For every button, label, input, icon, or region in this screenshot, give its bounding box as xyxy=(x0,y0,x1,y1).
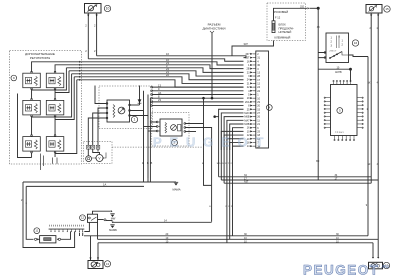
svg-text:2: 2 xyxy=(94,49,96,53)
inline connector X3 xyxy=(96,145,100,149)
IC left pins xyxy=(326,97,331,99)
wire A horizontal to mid ground xyxy=(23,181,144,183)
wire fuse to junction xyxy=(274,8,308,20)
ECU pin 24 xyxy=(250,86,253,88)
svg-text:9: 9 xyxy=(13,76,15,80)
svg-text:B: B xyxy=(147,161,149,165)
svg-text:31: 31 xyxy=(257,57,260,60)
svg-text:20: 20 xyxy=(257,105,260,108)
svg-text:5: 5 xyxy=(248,93,250,96)
svg-text:1А: 1А xyxy=(103,183,106,187)
switch to ground MW xyxy=(93,211,111,214)
left box bottom exit wires xyxy=(41,154,58,171)
svg-text:1: 1 xyxy=(257,94,259,97)
wire A from left down xyxy=(23,182,75,248)
ECU pin 1 xyxy=(250,93,253,95)
svg-text:25: 25 xyxy=(247,108,250,111)
terminal strip bottom left xyxy=(49,228,85,230)
svg-text:МАМБ: МАМБ xyxy=(109,228,117,232)
bus bottom 2 xyxy=(98,238,379,240)
svg-text:МW: МW xyxy=(111,216,116,220)
svg-text:2: 2 xyxy=(342,44,344,47)
ECU connector body xyxy=(256,51,269,148)
junction dot on wire row at x203.5 xyxy=(202,97,205,100)
wire bus line 1 from left to ECU pin xyxy=(97,56,246,58)
relay K1 in left box xyxy=(23,73,41,88)
ignition switch contact xyxy=(330,52,342,59)
svg-text:22: 22 xyxy=(247,86,250,89)
svg-text:ПРЕДОХРА-: ПРЕДОХРА- xyxy=(279,26,295,30)
left box internal wiring risers xyxy=(32,62,82,72)
svg-text:3A: 3A xyxy=(158,91,161,95)
svg-text:1: 1 xyxy=(134,118,136,122)
svg-text:9: 9 xyxy=(366,205,368,207)
svg-text:12: 12 xyxy=(257,83,260,86)
svg-text:РЕГУЛЯТОРЫ: РЕГУЛЯТОРЫ xyxy=(30,56,51,60)
svg-text:13: 13 xyxy=(257,71,260,74)
ECU pin 6 xyxy=(250,127,253,129)
svg-text:V: V xyxy=(98,156,101,160)
ECU pin 14 xyxy=(250,138,253,140)
bundle verticals down xyxy=(219,150,233,243)
control unit IC box xyxy=(331,85,358,136)
module 2 terminals xyxy=(156,121,158,123)
wire 211 down to bottom xyxy=(211,185,213,221)
relay K4 in left box xyxy=(46,100,64,115)
ECU pin 29 xyxy=(250,101,253,103)
svg-text:РОЗОВЫЙ: РОЗОВЫЙ xyxy=(274,10,288,14)
svg-text:КЛЕММНЫЙ: КЛЕММНЫЙ xyxy=(275,35,291,39)
dashed box module 1 xyxy=(99,86,153,129)
svg-text:5: 5 xyxy=(339,109,341,113)
ECU pin 27 xyxy=(250,112,253,114)
wire bus line 4 from left to ECU pin xyxy=(82,65,244,69)
arrows into bottom right component xyxy=(372,257,374,259)
relay K5 in left box xyxy=(23,137,41,152)
svg-text:26A: 26A xyxy=(245,101,250,104)
svg-text:11: 11 xyxy=(35,229,38,233)
wire from comp10 pin2 down xyxy=(96,13,98,56)
svg-text:6: 6 xyxy=(257,127,259,130)
svg-text:PEUGEOT: PEUGEOT xyxy=(153,135,271,150)
svg-text:1: 1 xyxy=(342,40,344,43)
svg-text:E: E xyxy=(209,206,211,208)
wires module2 right side xyxy=(185,123,204,125)
svg-text:БК: БК xyxy=(316,160,320,163)
wires module1 right side xyxy=(130,111,144,120)
ignition switch output wire xyxy=(349,55,369,57)
label circle top right xyxy=(384,6,390,12)
svg-text:МАМА: МАМА xyxy=(172,188,180,192)
terminal arrow bus line 5 xyxy=(79,67,81,69)
ECU pin 34 xyxy=(250,145,253,147)
wire module1 to ECU pin row 4 xyxy=(152,101,244,103)
svg-text:А3Т: А3Т xyxy=(244,181,249,184)
wire module1 to ECU pin row 1 xyxy=(152,90,244,92)
left box inner loop wire xyxy=(18,94,32,158)
svg-text:1: 1 xyxy=(248,64,250,67)
svg-text:3: 3 xyxy=(331,45,333,48)
terminal arrow bus line 9 xyxy=(79,79,81,81)
wire 17 to right xyxy=(221,179,378,181)
svg-text:.RU: .RU xyxy=(381,264,389,269)
wire ignition feed vertical right xyxy=(367,57,369,236)
svg-text:33: 33 xyxy=(317,26,320,29)
svg-text:16: 16 xyxy=(247,60,250,63)
ECU label circle xyxy=(266,105,272,111)
svg-text:337: 337 xyxy=(245,53,250,56)
svg-text:25: 25 xyxy=(257,130,260,133)
wire bus3 down to bottom right component xyxy=(372,243,374,257)
svg-text:16: 16 xyxy=(247,127,250,130)
ECU pin 21 xyxy=(250,123,253,125)
switch bottom wires xyxy=(84,222,89,231)
svg-text:2B: 2B xyxy=(246,68,249,71)
svg-text:2 В 1 Г: 2 В 1 Г xyxy=(330,51,338,53)
bus bottom 3 xyxy=(98,242,373,244)
ECU pin 12 xyxy=(250,82,253,84)
label circle fuse xyxy=(34,228,40,234)
svg-text:30: 30 xyxy=(257,64,260,67)
svg-text:БЛОК: БЛОК xyxy=(279,23,287,27)
ground MAMB bottom xyxy=(111,222,113,224)
ECU pin 15 xyxy=(250,108,253,110)
svg-text:10: 10 xyxy=(247,130,250,133)
wire bus line 9 from left to ECU pin xyxy=(82,80,244,87)
label circle 9 left box xyxy=(11,75,17,81)
svg-text:М3В: М3В xyxy=(244,123,249,126)
wire bus line 2 from left to ECU pin xyxy=(88,59,243,61)
dashed box fuse block xyxy=(267,3,306,41)
wire bundle group E xyxy=(221,131,243,150)
svg-text:29: 29 xyxy=(257,101,260,104)
ignition switch box xyxy=(326,33,349,63)
IC internal label circle xyxy=(337,108,343,114)
svg-text:21: 21 xyxy=(247,82,250,85)
wire diagnostic vertical xyxy=(211,33,213,98)
svg-text:13: 13 xyxy=(106,262,110,266)
wire module1 to ECU pin row 2 xyxy=(152,93,244,95)
terminal arrow bus line 8 xyxy=(79,76,81,78)
ignition coil / top-left component box xyxy=(85,4,102,14)
dashed box module 2 xyxy=(152,113,189,147)
lamp component xyxy=(86,156,92,162)
ECU pin 20 xyxy=(250,105,253,107)
svg-text:F 12: F 12 xyxy=(275,16,281,20)
heater motor bottom left xyxy=(88,261,103,269)
IC top pins xyxy=(333,82,335,85)
svg-text:МА3: МА3 xyxy=(244,112,250,115)
svg-text:23: 23 xyxy=(247,71,250,74)
bottom left switch component xyxy=(88,214,98,222)
wire module1 to ECU pin row 3 xyxy=(152,97,244,99)
svg-text:АСПВ: АСПВ xyxy=(335,71,342,74)
svg-text:Т П З Н У: Т П З Н У xyxy=(335,132,345,134)
ECU pin 31 xyxy=(250,57,253,59)
wires from generator down xyxy=(370,14,372,184)
wire bus line 7 from left to ECU pin xyxy=(82,74,244,80)
svg-text:PEUGEOT: PEUGEOT xyxy=(303,263,380,277)
wires module2 left to verticals xyxy=(150,122,157,182)
ECU pin 11 xyxy=(250,119,253,121)
svg-text:М6В: М6В xyxy=(244,116,249,119)
svg-text:3: 3 xyxy=(257,68,259,71)
relay K2 in left box xyxy=(46,73,64,88)
svg-text:4: 4 xyxy=(268,106,270,110)
wire branches to ignition switch xyxy=(318,53,326,58)
motor wires up xyxy=(90,236,92,261)
svg-text:19: 19 xyxy=(247,97,250,100)
ECU pin 18 xyxy=(250,134,253,136)
svg-text:337: 337 xyxy=(244,42,249,46)
svg-text:27: 27 xyxy=(257,112,260,115)
svg-text:4: 4 xyxy=(26,202,28,205)
svg-text:12: 12 xyxy=(81,216,85,220)
ECU pin 13 xyxy=(250,71,253,73)
wire from comp10 pin1 down xyxy=(87,13,89,59)
wire C long to right xyxy=(113,221,212,223)
svg-text:10: 10 xyxy=(257,97,260,100)
svg-text:ДИАГНОСТИКИ: ДИАГНОСТИКИ xyxy=(203,26,226,30)
label circle bottom right xyxy=(383,262,389,268)
module 1 terminals xyxy=(106,103,108,105)
junction dot bundle xyxy=(213,115,216,118)
svg-text:2: 2 xyxy=(85,24,87,28)
diode D1 xyxy=(139,86,141,106)
wire module2 verticals to ground xyxy=(144,181,177,183)
terminal arrow bus line 3 xyxy=(79,61,81,63)
inline connector X2 xyxy=(91,145,95,149)
svg-text:33T: 33T xyxy=(245,57,250,60)
terminal arrow bus line 6 xyxy=(79,70,81,72)
svg-text:4: 4 xyxy=(257,60,259,63)
svg-text:16: 16 xyxy=(354,41,358,45)
relay K6 in left box xyxy=(46,137,64,152)
label circle 2 xyxy=(172,140,178,146)
svg-text:8: 8 xyxy=(248,105,250,108)
ECU pin 26 xyxy=(250,116,253,118)
junction dot diag line meets wire xyxy=(211,97,214,100)
svg-text:2: 2 xyxy=(257,53,259,56)
module 1 relay box xyxy=(107,100,130,122)
label circle motor xyxy=(104,261,110,267)
svg-text:28: 28 xyxy=(257,75,260,78)
label circle ignition switch xyxy=(352,40,358,46)
svg-text:24: 24 xyxy=(257,86,260,89)
ECU pin 17 xyxy=(250,79,253,81)
svg-text:22: 22 xyxy=(257,90,260,93)
svg-text:2: 2 xyxy=(331,41,333,44)
wire 33 vertical xyxy=(317,8,319,180)
terminal arrow bus line 4 xyxy=(79,64,81,66)
svg-text:E: E xyxy=(142,161,144,165)
svg-text:НИТЕЛЕЙ: НИТЕЛЕЙ xyxy=(279,30,292,34)
svg-text:26: 26 xyxy=(257,116,260,119)
label circle 1 xyxy=(131,116,137,122)
wire A3T to right xyxy=(224,182,371,184)
wire bus line 5 from left to ECU pin xyxy=(82,68,244,73)
ECU pin 28 xyxy=(250,75,253,77)
svg-text:4: 4 xyxy=(248,90,250,93)
generator component top right xyxy=(366,5,382,14)
IC right pins xyxy=(357,97,362,99)
wire 34 to right xyxy=(219,176,372,178)
svg-text:17: 17 xyxy=(257,79,260,82)
inline connector X1 xyxy=(87,145,91,149)
svg-text:24: 24 xyxy=(247,79,250,82)
ECU pin 4 xyxy=(250,60,253,62)
ECU pin 3 xyxy=(250,68,253,70)
wire bundle group D xyxy=(219,109,244,150)
ECU pin 30 xyxy=(250,64,253,66)
ECU pin 22 xyxy=(250,90,253,92)
bottom right component box xyxy=(369,262,383,269)
wire module1 to ECU pin row 5 xyxy=(152,105,244,107)
svg-text:1: 1 xyxy=(331,37,333,40)
svg-text:15: 15 xyxy=(257,108,260,111)
wires module1 left side loop xyxy=(95,86,107,104)
fuse F12 symbol xyxy=(272,21,275,33)
ECU pin 2 xyxy=(250,53,253,55)
wire branch to IC top xyxy=(318,68,350,70)
module 2 relay box xyxy=(160,119,182,136)
svg-text:10: 10 xyxy=(106,7,110,11)
junction dot ACPB xyxy=(349,68,352,71)
wire module1 to ECU pin row 0 xyxy=(152,86,244,88)
motor component M xyxy=(96,155,103,162)
svg-text:B: B xyxy=(151,161,153,165)
dashed boundary center bottom xyxy=(112,146,204,148)
wire 337 from fuse box down-left to bus line1 xyxy=(232,41,274,56)
strip feed wires xyxy=(82,233,84,236)
bus bottom 1 xyxy=(84,235,368,237)
wire B from left down through fuse xyxy=(26,186,33,239)
vertical wire from dot 203 down xyxy=(204,98,212,185)
svg-text:2: 2 xyxy=(94,24,96,28)
ECU pin 25 xyxy=(250,130,253,132)
svg-text:11: 11 xyxy=(257,119,260,122)
label circle switch xyxy=(80,215,86,221)
label circle 10 xyxy=(104,5,110,11)
wire bus line 6 from left to ECU pin xyxy=(82,71,244,76)
dashed box additional regulators xyxy=(10,51,82,165)
ECU pin 10 xyxy=(250,97,253,99)
diag text pointer xyxy=(210,31,214,33)
svg-text:3: 3 xyxy=(248,75,250,78)
wire bus line 8 from left to ECU pin xyxy=(82,77,244,84)
wire B horizontal 1A xyxy=(26,185,144,187)
ground MAMA mid xyxy=(174,181,178,183)
terminal arrow bus line 7 xyxy=(79,73,81,75)
svg-text:15: 15 xyxy=(385,7,389,11)
svg-text:МА7: МА7 xyxy=(244,119,250,122)
switch output through contact xyxy=(98,219,104,221)
dashed box around lamp and motor xyxy=(84,142,113,164)
ECU pin 7 xyxy=(250,141,253,143)
wire bus line 3 from left to ECU pin xyxy=(82,62,244,65)
arrows into generator wires xyxy=(370,15,372,17)
fuse holder bottom left xyxy=(40,236,56,243)
relay K3 in left box xyxy=(23,100,41,115)
svg-text:21: 21 xyxy=(257,123,260,126)
svg-text:2: 2 xyxy=(85,49,87,53)
IC bottom pins xyxy=(334,136,336,140)
junction dot 33J xyxy=(317,7,320,10)
